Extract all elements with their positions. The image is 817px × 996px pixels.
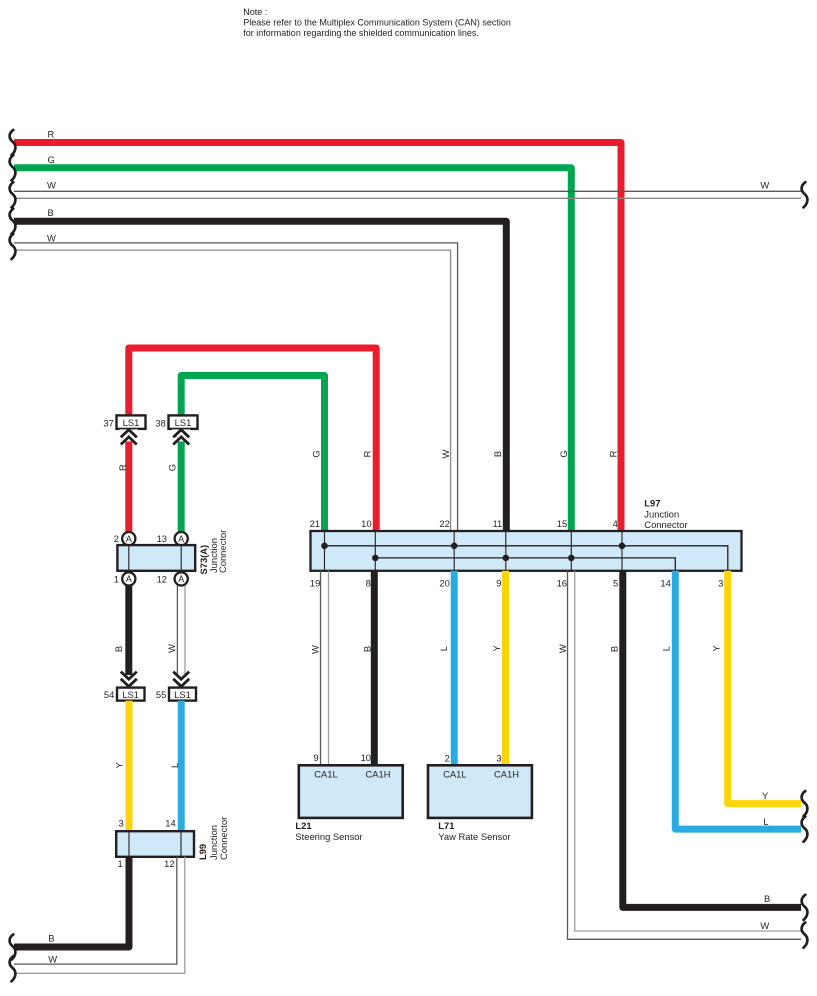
svg-text:B: B — [113, 646, 124, 652]
svg-text:Connector: Connector — [644, 519, 687, 530]
svg-text:R: R — [362, 450, 373, 457]
svg-text:W: W — [47, 232, 56, 243]
svg-text:Connector: Connector — [218, 817, 229, 860]
svg-text:L21: L21 — [295, 820, 311, 831]
svg-text:CA1H: CA1H — [365, 768, 390, 779]
wire W (S73 pin 12 to LS1 55) — [177, 586, 185, 688]
wire L (LS1 55 to L99 pin 14) — [178, 701, 185, 832]
wire Y (L97 pin 3 to right) — [728, 571, 801, 804]
break at left of wire R — [10, 130, 16, 155]
internal bus line 1 — [325, 546, 728, 571]
svg-text:for information regarding the: for information regarding the shielded c… — [243, 28, 479, 38]
svg-text:1: 1 — [114, 574, 119, 585]
svg-text:W: W — [166, 644, 177, 653]
svg-text:9: 9 — [313, 752, 318, 763]
wire B (L97 pin 5 to bottom right) — [623, 571, 801, 908]
svg-text:R: R — [608, 450, 619, 457]
label L97 — [644, 497, 687, 530]
wire W (L97 pin 16 to bottom right) — [568, 571, 802, 940]
L97 bottom pin numbers — [310, 578, 724, 589]
svg-text:4: 4 — [613, 518, 618, 529]
svg-text:19: 19 — [310, 578, 320, 589]
svg-text:B: B — [609, 646, 620, 652]
S73 body — [117, 545, 195, 571]
break at right of wire B5 — [802, 895, 808, 920]
wire Y (LS1 54 to L99 pin 3) — [126, 701, 133, 832]
svg-text:Connector: Connector — [217, 530, 228, 573]
L21 steering sensor — [299, 752, 403, 818]
svg-text:LS1: LS1 — [175, 417, 192, 428]
L97 junction connector — [311, 531, 742, 571]
wire W (second shielded wire to L97 pin 22) — [14, 243, 458, 531]
svg-text:L99: L99 — [197, 844, 208, 860]
svg-text:Steering Sensor: Steering Sensor — [295, 831, 362, 842]
svg-text:Y: Y — [711, 645, 722, 652]
shield terminal LS1 pin 55 — [156, 672, 196, 701]
svg-text:B: B — [492, 451, 503, 457]
shield terminal LS1 pin 54 — [104, 672, 145, 701]
svg-text:A: A — [178, 574, 184, 584]
wire L (L97 pin 14 to right) — [675, 571, 801, 829]
shield terminal LS1 pin 37 — [103, 415, 145, 444]
svg-text:1: 1 — [117, 858, 122, 869]
L97 top pin numbers — [310, 518, 618, 529]
L71 yaw rate sensor — [428, 752, 532, 817]
svg-text:3: 3 — [496, 752, 501, 763]
svg-text:L: L — [438, 646, 449, 651]
wire B (top bus to L97 pin 11) — [14, 221, 506, 531]
svg-text:G: G — [48, 154, 55, 165]
svg-text:A: A — [126, 574, 132, 584]
svg-text:W: W — [309, 645, 320, 654]
svg-text:G: G — [311, 450, 322, 457]
label Junction Connector (L99) — [208, 817, 229, 860]
svg-text:B: B — [48, 933, 54, 944]
svg-text:W: W — [760, 920, 769, 931]
svg-text:3: 3 — [118, 818, 123, 829]
svg-text:54: 54 — [104, 689, 114, 700]
svg-text:A: A — [178, 534, 184, 544]
break at right of wire Y3 — [802, 791, 808, 816]
svg-text:16: 16 — [557, 578, 567, 589]
wire G (LS1 38 down to S73 pin 13) — [178, 429, 185, 532]
label L21 Steering Sensor — [295, 820, 362, 842]
svg-text:L: L — [661, 646, 672, 651]
break at left of bottom wire B — [10, 934, 16, 959]
svg-text:Junction: Junction — [644, 509, 679, 520]
svg-text:CA1L: CA1L — [314, 768, 337, 779]
svg-text:5: 5 — [613, 578, 618, 589]
svg-text:LS1: LS1 — [122, 689, 139, 700]
svg-text:55: 55 — [156, 689, 166, 700]
svg-text:Y: Y — [762, 790, 769, 801]
svg-text:10: 10 — [361, 752, 371, 763]
svg-text:LS1: LS1 — [123, 417, 140, 428]
svg-text:W: W — [440, 449, 451, 458]
svg-text:W: W — [47, 180, 56, 191]
L99 junction connector — [116, 831, 194, 869]
wire G (hook from LS1 38 to L97 pin 21) — [181, 376, 324, 532]
wire W (top shielded wire crossing full page) — [14, 191, 801, 198]
svg-text:R: R — [48, 128, 55, 139]
svg-text:2: 2 — [445, 752, 450, 763]
svg-text:L71: L71 — [438, 820, 454, 831]
svg-text:CA1H: CA1H — [494, 768, 519, 779]
break at right of wire L14 — [802, 817, 808, 842]
wire R (top bus to L97 pin 4) — [14, 143, 621, 532]
svg-text:22: 22 — [439, 518, 449, 529]
svg-text:14: 14 — [660, 578, 670, 589]
svg-text:B: B — [48, 207, 54, 218]
svg-text:15: 15 — [557, 518, 567, 529]
svg-text:G: G — [166, 464, 177, 471]
svg-text:2: 2 — [114, 533, 119, 544]
wire Y (L97 pin 9 to L71 CA1H) — [502, 571, 509, 766]
svg-text:13: 13 — [157, 533, 167, 544]
label Junction Connector (S73) — [208, 530, 228, 573]
svg-text:21: 21 — [310, 518, 320, 529]
svg-text:W: W — [557, 644, 568, 653]
wire L (L97 pin 20 to L71 CA1L) — [451, 571, 458, 766]
label L71 Yaw Rate Sensor — [438, 820, 510, 842]
wire R (hook from LS1 37 to L97 pin 10) — [129, 348, 376, 531]
svg-text:R: R — [117, 464, 128, 471]
svg-text:L: L — [763, 816, 768, 827]
svg-text:Note :: Note : — [243, 7, 267, 17]
wire G (top bus to L97 pin 15) — [14, 168, 571, 531]
svg-text:12: 12 — [157, 574, 167, 585]
break at left of bottom wire W — [10, 956, 16, 981]
break at right of top wire W — [802, 182, 808, 207]
svg-text:W: W — [48, 954, 57, 965]
break at left of second wire W — [10, 234, 16, 259]
wire B (L97 pin 8 to L21 CA1H) — [371, 571, 378, 766]
svg-text:9: 9 — [496, 578, 501, 589]
svg-text:W: W — [760, 180, 769, 191]
svg-text:8: 8 — [366, 578, 371, 589]
break at right of wire W16 — [802, 923, 808, 948]
svg-text:A: A — [126, 534, 132, 544]
break at left of wire B — [10, 209, 16, 234]
break at left of wire G — [10, 155, 16, 180]
wire B (S73 pin 1 to LS1 54) — [125, 586, 132, 688]
svg-text:Please refer to the Multiplex: Please refer to the Multiplex Communicat… — [243, 18, 511, 28]
svg-text:38: 38 — [155, 417, 165, 428]
svg-text:14: 14 — [165, 818, 175, 829]
wire W (L99 pin 12 to bottom left) — [14, 857, 185, 974]
svg-text:B: B — [361, 646, 372, 652]
note text — [243, 7, 511, 38]
break at left of top wire W — [10, 182, 16, 207]
svg-text:10: 10 — [361, 518, 371, 529]
svg-text:LS1: LS1 — [174, 689, 191, 700]
svg-text:G: G — [558, 450, 569, 457]
svg-text:CA1L: CA1L — [443, 768, 466, 779]
svg-text:L97: L97 — [644, 497, 660, 508]
svg-text:3: 3 — [718, 578, 723, 589]
junction dots line 2 — [372, 555, 379, 562]
svg-text:Y: Y — [114, 762, 125, 769]
internal bus line 2 — [375, 558, 675, 571]
wire B (L99 pin 1 to bottom left) — [14, 857, 129, 947]
svg-text:Yaw Rate Sensor: Yaw Rate Sensor — [438, 831, 510, 842]
shield terminal LS1 pin 38 — [155, 415, 197, 444]
svg-text:L: L — [169, 763, 180, 768]
wire R (LS1 37 down to S73 pin 2) — [125, 429, 132, 532]
svg-text:B: B — [764, 893, 770, 904]
S73(A) junction connector — [114, 532, 195, 586]
svg-text:12: 12 — [164, 858, 174, 869]
svg-text:Y: Y — [491, 645, 502, 652]
svg-text:20: 20 — [439, 578, 449, 589]
svg-text:37: 37 — [103, 417, 113, 428]
svg-text:11: 11 — [492, 518, 502, 529]
junction dots line 1 — [321, 543, 328, 550]
wire W (L97 pin 19 to L21 CA1L) — [321, 571, 329, 766]
